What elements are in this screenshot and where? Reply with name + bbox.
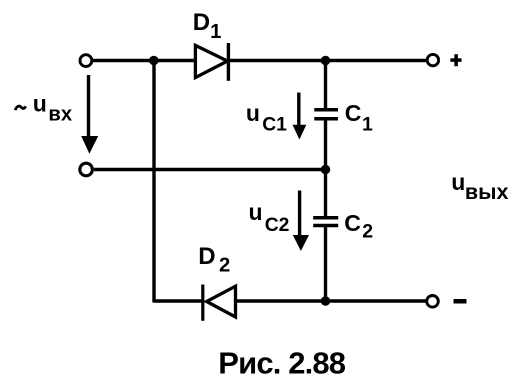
svg-text:1: 1 xyxy=(210,21,221,43)
junction dot top xyxy=(149,56,159,66)
diode D1 xyxy=(195,43,228,81)
arrow u_vx direction xyxy=(81,75,98,154)
svg-text:C2: C2 xyxy=(265,215,290,236)
svg-text:2: 2 xyxy=(362,220,373,242)
label plus xyxy=(450,54,461,66)
wire right vertical lower xyxy=(324,227,327,301)
svg-text:u: u xyxy=(246,100,260,126)
label u_C2 xyxy=(249,199,290,236)
label D2 xyxy=(198,243,230,277)
junction dot C1 top xyxy=(321,56,331,66)
terminal output minus xyxy=(427,296,439,308)
svg-text:C: C xyxy=(345,100,362,126)
label minus xyxy=(454,299,467,304)
svg-text:вых: вых xyxy=(465,180,509,204)
label u_C1 xyxy=(246,100,287,135)
diode D2 xyxy=(203,285,236,321)
arrow u_C2 direction xyxy=(293,191,309,252)
junction dot C1-C2 node xyxy=(321,165,331,175)
arrow u_C1 direction xyxy=(293,93,307,140)
capacitor C2 xyxy=(313,218,338,226)
label C2 xyxy=(344,210,373,242)
svg-text:2: 2 xyxy=(219,254,230,276)
wire right vertical middle xyxy=(324,120,327,217)
capacitor C1 xyxy=(314,110,338,119)
terminal input top xyxy=(80,55,92,67)
wire middle horizontal xyxy=(94,168,326,171)
terminal input bottom xyxy=(80,163,93,176)
svg-text:u: u xyxy=(33,91,47,117)
svg-text:C1: C1 xyxy=(262,114,287,135)
wire top-left segment xyxy=(93,59,196,62)
svg-text:u: u xyxy=(249,199,263,225)
wire right vertical upper xyxy=(324,61,327,109)
svg-text:Рис. 2.88: Рис. 2.88 xyxy=(218,345,345,380)
wire bottom-right segment xyxy=(236,299,426,302)
svg-text:1: 1 xyxy=(362,114,373,136)
label u_vx xyxy=(15,91,73,126)
svg-text:D: D xyxy=(193,9,210,36)
wire top-right segment xyxy=(229,59,427,62)
wire left vertical xyxy=(152,61,155,303)
label D1 xyxy=(193,9,222,43)
svg-text:D: D xyxy=(198,243,215,270)
svg-text:u: u xyxy=(451,169,465,195)
junction dot C2 bottom xyxy=(321,296,331,306)
svg-text:вх: вх xyxy=(48,104,72,126)
wire bottom-left segment xyxy=(154,299,202,302)
label C1 xyxy=(345,100,373,136)
terminal output plus xyxy=(427,54,438,65)
label u_vyh xyxy=(451,169,508,204)
svg-text:C: C xyxy=(344,210,361,236)
